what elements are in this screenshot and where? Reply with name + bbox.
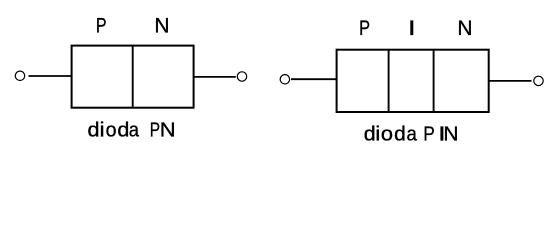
wire from PN body to right terminal (194, 76, 236, 78)
terminal circle right of dioda PN (237, 72, 246, 81)
svg-text:N: N (457, 17, 472, 40)
svg-text:P: P (359, 16, 370, 39)
svg-text:d: d (364, 123, 376, 145)
svg-text:a: a (129, 120, 140, 142)
diode PN body (72, 46, 194, 108)
svg-text:P: P (150, 118, 160, 140)
caption "dioda PIN" (364, 122, 459, 145)
svg-text:i: i (99, 118, 104, 141)
svg-text:P: P (96, 13, 107, 37)
svg-text:o: o (106, 119, 117, 141)
svg-text:a: a (407, 124, 418, 146)
terminal circle right of dioda PIN (534, 76, 543, 85)
svg-text:N: N (154, 14, 169, 37)
I/N junction divider (433, 50, 435, 112)
svg-text:d: d (87, 119, 99, 141)
terminal circle left of dioda PIN (280, 75, 289, 84)
svg-text:I: I (408, 17, 416, 40)
svg-text:N: N (443, 123, 458, 145)
wire from PIN body to right terminal (489, 80, 532, 82)
wire from left terminal to PIN body (291, 78, 336, 80)
wire from left terminal to PN body (29, 75, 72, 77)
svg-text:N: N (160, 119, 176, 141)
svg-text:o: o (381, 123, 393, 145)
svg-text:i: i (375, 123, 380, 145)
diode PIN body (337, 50, 489, 112)
svg-text:P: P (423, 122, 434, 145)
svg-text:d: d (394, 123, 406, 145)
svg-text:d: d (117, 119, 129, 141)
PN junction divider (132, 46, 134, 108)
P/I junction divider (388, 50, 390, 112)
terminal circle left of dioda PN (15, 71, 24, 80)
caption "dioda PN" (87, 118, 175, 142)
